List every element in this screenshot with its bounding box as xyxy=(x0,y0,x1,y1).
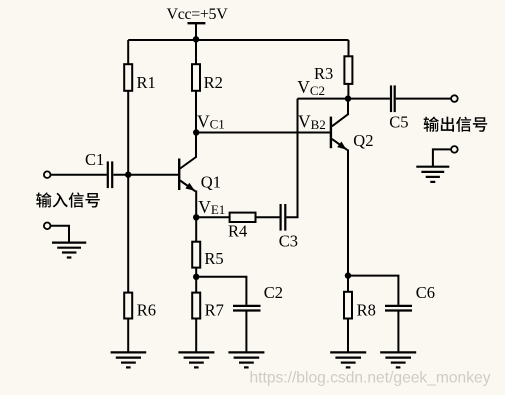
input terminal xyxy=(44,171,51,178)
junction node VC1 xyxy=(193,129,199,135)
svg-text:C2: C2 xyxy=(264,283,283,302)
ground symbol input xyxy=(52,243,86,258)
ground symbol R6 xyxy=(111,352,147,367)
svg-text:https://blog.csdn.net/geek_mon: https://blog.csdn.net/geek_monkey xyxy=(250,370,491,387)
resistor R1 xyxy=(124,64,132,91)
input ground terminal xyxy=(44,223,51,230)
capacitor C1 xyxy=(108,161,112,188)
capacitor C3 xyxy=(281,204,286,231)
capacitor C5 xyxy=(391,85,395,112)
resistor R5 xyxy=(192,242,200,268)
wire R5 to node E xyxy=(195,268,197,293)
wire node F to R8 xyxy=(347,276,349,292)
wire input ground xyxy=(51,226,69,242)
svg-text:C6: C6 xyxy=(416,283,435,302)
capacitor C6 xyxy=(385,306,412,311)
resistor R6 xyxy=(124,293,132,319)
wire Q1 emitter to node VE1 xyxy=(195,191,197,218)
svg-text:Q1: Q1 xyxy=(201,172,221,191)
wire R2 column top xyxy=(195,40,197,64)
output ground terminal xyxy=(451,146,458,153)
svg-text:VB2: VB2 xyxy=(298,112,326,132)
resistor R2 xyxy=(192,64,200,91)
svg-text:R4: R4 xyxy=(228,222,247,241)
svg-text:R8: R8 xyxy=(357,301,376,320)
wire R3 column top xyxy=(348,40,350,56)
svg-text:Vcc=+5V: Vcc=+5V xyxy=(167,6,229,23)
wire R4 to node VE1 xyxy=(196,216,229,218)
wire output ground xyxy=(433,149,451,166)
resistor R4 xyxy=(230,213,256,222)
wire node F to C6 xyxy=(348,276,398,305)
ground symbol C2 xyxy=(228,352,264,367)
wire R2 to node VC1 xyxy=(195,91,197,133)
wire VE1 to R5 xyxy=(195,217,197,241)
junction dot Vcc rail xyxy=(193,36,199,42)
ground symbol R8 xyxy=(330,352,366,367)
wire input to C1 xyxy=(51,174,107,176)
resistor R7 xyxy=(192,293,200,319)
transistor Q1 xyxy=(179,133,196,192)
bootstrap wire VC2 down to C3 xyxy=(286,99,297,218)
label input signal (输入信号) xyxy=(36,192,100,207)
svg-text:VE1: VE1 xyxy=(198,197,225,217)
wire C2 to ground xyxy=(245,311,247,352)
svg-text:R7: R7 xyxy=(205,301,224,320)
wire R1 to input node xyxy=(127,91,129,293)
wire node VC2 horizontal xyxy=(298,98,390,100)
svg-text:R1: R1 xyxy=(137,73,156,92)
label output signal (输出信号) xyxy=(424,117,488,132)
wire C3 to R4 xyxy=(256,216,280,218)
resistor R3 xyxy=(344,56,352,84)
resistor R8 xyxy=(344,292,352,319)
Vcc supply symbol xyxy=(188,23,206,40)
svg-text:C3: C3 xyxy=(279,232,298,251)
junction node R5/R7/C2 xyxy=(193,274,199,280)
ground symbol output xyxy=(416,167,449,182)
capacitor C2 xyxy=(233,306,261,311)
junction dot input node xyxy=(125,172,131,178)
svg-text:R5: R5 xyxy=(204,249,223,268)
wire R8 to ground xyxy=(347,319,349,353)
wire node VC1 to Q2 base xyxy=(196,132,330,134)
svg-text:R2: R2 xyxy=(204,73,223,92)
svg-text:R3: R3 xyxy=(314,64,333,83)
wire C5 to output terminal xyxy=(396,98,451,100)
output terminal xyxy=(451,95,458,102)
transistor Q2 xyxy=(331,99,348,150)
ground symbol C6 xyxy=(380,352,416,367)
svg-text:Q2: Q2 xyxy=(353,131,373,150)
power rail Vcc wire xyxy=(128,39,348,41)
wire R1 column top xyxy=(127,40,129,64)
svg-text:VC1: VC1 xyxy=(197,111,225,131)
junction node R8/C6 xyxy=(345,272,351,278)
wire R6 to ground xyxy=(127,319,129,353)
wire C6 to ground xyxy=(397,311,399,352)
svg-text:C1: C1 xyxy=(85,150,104,169)
wire R7 to ground xyxy=(195,319,197,353)
wire R3 to node VC2 xyxy=(347,84,349,99)
wire Q2 emitter to node F xyxy=(347,149,349,275)
junction node VC2 xyxy=(345,95,351,101)
junction node VE1 xyxy=(193,214,199,220)
svg-text:C5: C5 xyxy=(389,112,408,131)
wire node E to C2 xyxy=(196,277,246,305)
ground symbol R7 xyxy=(178,352,214,367)
wire C1 to Q1 base xyxy=(113,174,178,176)
svg-text:R6: R6 xyxy=(137,301,156,320)
